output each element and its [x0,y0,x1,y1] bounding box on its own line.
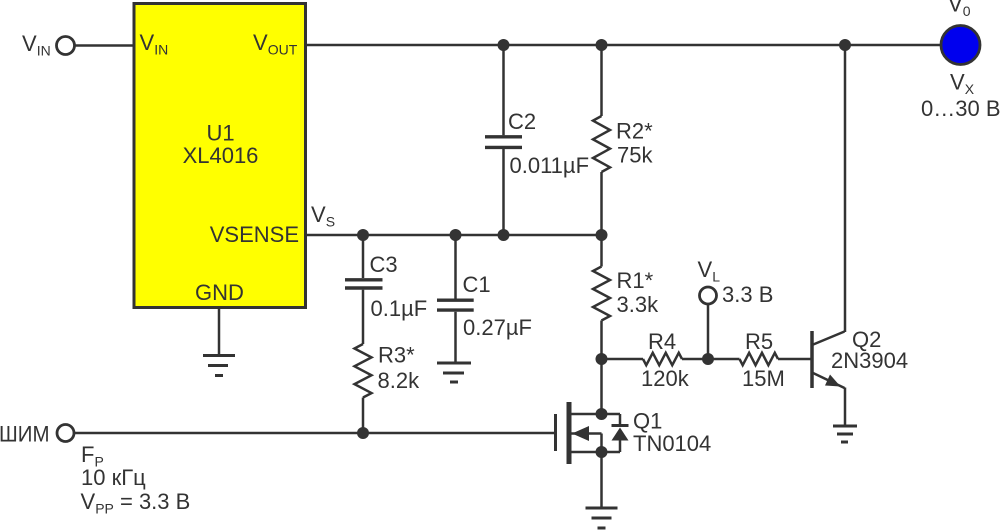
svg-text:R4: R4 [648,329,676,354]
svg-text:0.27µF: 0.27µF [463,315,532,340]
svg-text:C1: C1 [463,272,491,297]
svg-text:3.3 В: 3.3 В [722,282,773,307]
svg-text:Q1: Q1 [633,409,662,434]
svg-text:10 кГц: 10 кГц [81,465,146,490]
svg-text:0.011µF: 0.011µF [510,153,590,178]
svg-text:2N3904: 2N3904 [831,348,908,373]
svg-text:0…30 В: 0…30 В [921,96,1000,121]
svg-text:VIN: VIN [22,31,51,59]
svg-text:TN0104: TN0104 [633,431,711,456]
svg-text:U1: U1 [206,121,234,146]
svg-text:R5: R5 [745,329,773,354]
svg-text:C2: C2 [508,109,536,134]
svg-text:GND: GND [195,280,244,305]
svg-text:8.2k: 8.2k [378,368,421,393]
svg-text:3.3k: 3.3k [617,292,660,317]
svg-text:VPP = 3.3 В: VPP = 3.3 В [81,489,191,517]
svg-text:R3*: R3* [378,343,415,368]
svg-text:XL4016: XL4016 [183,143,259,168]
svg-text:C3: C3 [370,252,398,277]
svg-text:VX: VX [950,70,975,98]
svg-text:120k: 120k [641,366,690,391]
svg-text:R1*: R1* [617,268,654,293]
svg-text:75k: 75k [617,143,653,168]
svg-text:ШИМ: ШИМ [0,422,50,447]
svg-text:VS: VS [311,202,335,230]
svg-text:15M: 15M [742,366,785,391]
svg-text:0.1µF: 0.1µF [371,296,428,321]
svg-text:R2*: R2* [616,119,653,144]
svg-text:V0: V0 [948,0,971,19]
svg-text:VSENSE: VSENSE [210,222,299,247]
svg-text:VL: VL [698,257,721,285]
